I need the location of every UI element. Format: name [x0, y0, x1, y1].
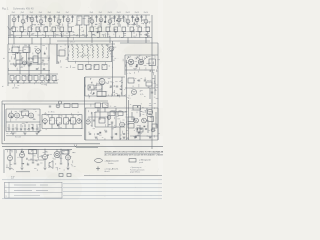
- resistor R13: [122, 27, 126, 31]
- capacitor C1: [17, 17, 19, 18]
- resistor R31: [16, 76, 20, 81]
- tube V11: [117, 18, 121, 22]
- wire R12 lead: [115, 31, 117, 37]
- wire band2 right v2: [157, 43, 159, 140]
- svg-text:Schematic KW 40: Schematic KW 40: [13, 7, 34, 11]
- transistor Q1: [134, 118, 139, 123]
- tube V9: [99, 18, 103, 22]
- table row line 1: [5, 187, 63, 189]
- capacitor C61: [36, 69, 38, 70]
- table divider v: [8, 182, 10, 198]
- wire b4r v11: [119, 127, 121, 140]
- wire band2 right v1: [124, 55, 126, 75]
- wire V2 anode: [22, 15, 24, 19]
- wire V14 anode: [145, 15, 147, 19]
- transformer T1: [77, 16, 82, 25]
- wire band3 mid bottom: [85, 95, 125, 97]
- capacitor C2: [26, 17, 28, 18]
- resistor R49: [99, 118, 105, 123]
- capacitor C54: [37, 164, 39, 165]
- label band4 texture L: [16, 119, 17, 121]
- wire R43 leads: [58, 115, 60, 118]
- wire wrap2 drop: [4, 104, 6, 141]
- tube V14: [144, 19, 148, 23]
- wire band2 V16 lead: [111, 51, 113, 62]
- svg-text:4 x ECC: 4 x ECC: [48, 112, 55, 114]
- wire band3 bottom: [8, 82, 58, 84]
- wire bl cont: [76, 147, 98, 149]
- ground band2 a: [14, 65, 17, 67]
- wire band4 right rail: [85, 107, 158, 109]
- wire V7 cathode: [67, 22, 69, 27]
- wire L5 top: [91, 44, 93, 46]
- svg-text:8x 0,05: 8x 0,05: [15, 137, 21, 139]
- wire V11 cathode: [118, 22, 120, 27]
- node wrap joint: [59, 101, 62, 104]
- ground b4r c: [123, 137, 126, 139]
- resistor R67: [118, 112, 123, 116]
- wire band4 right v3: [125, 60, 127, 140]
- wire band3 fr v: [154, 75, 156, 95]
- capacitor C60: [42, 60, 44, 61]
- diode D2: [136, 56, 139, 59]
- wire bl tube drops: [9, 161, 11, 168]
- table entry 1: [14, 184, 48, 186]
- wire V10 cathode: [109, 23, 111, 27]
- wire long rail A: [2, 143, 100, 145]
- ground bl d: [67, 168, 70, 170]
- wire band4 left rail: [6, 108, 40, 110]
- capacitor C62: [43, 69, 45, 70]
- ground band4 a: [12, 133, 15, 135]
- wire V13 anode: [136, 15, 138, 18]
- resistor R50: [148, 117, 154, 122]
- capacitor C13: [140, 17, 142, 18]
- capacitor C32: [116, 86, 118, 87]
- capacitor C63: [151, 92, 153, 93]
- wire V10 anode: [109, 15, 111, 19]
- wire ruled line 6: [2, 198, 162, 200]
- wire V11 anode: [118, 15, 120, 18]
- resistor R4: [36, 27, 40, 31]
- resistor R54: [128, 124, 134, 129]
- wire R44 leads: [65, 115, 67, 118]
- resistor R5: [44, 27, 48, 31]
- tube V35: [56, 104, 60, 108]
- wire band2 right rail: [125, 54, 158, 56]
- wire band4 mid bottom: [42, 128, 82, 130]
- wire band4 r v5: [139, 125, 141, 140]
- capacitor C70: [89, 134, 91, 135]
- wire band2 col d: [19, 53, 21, 75]
- capacitor C34: [144, 80, 146, 81]
- wire band2 rail s2: [30, 57, 50, 59]
- svg-text:4,7k: 4,7k: [140, 94, 143, 96]
- ground b4r a: [95, 137, 98, 139]
- wire L3 top: [81, 44, 83, 46]
- wire V7 anode: [67, 15, 69, 18]
- wire R5 lead: [45, 31, 47, 37]
- resistor R48: [133, 106, 141, 111]
- capacitor C23: [28, 58, 30, 59]
- capacitor C4: [44, 17, 46, 18]
- wire L7 top: [101, 44, 103, 46]
- ground b4r b: [111, 137, 114, 139]
- wire V8 cathode: [91, 23, 93, 27]
- wire V8 anode: [91, 15, 93, 19]
- svg-text:punkt: punkt: [139, 161, 144, 164]
- svg-text:Sender: Sender: [108, 162, 114, 165]
- wire R2 lead: [21, 31, 23, 37]
- wire band3 mid v2: [101, 85, 103, 97]
- inductor L3: [82, 46, 83, 58]
- tube V4: [39, 19, 43, 23]
- resistor R45: [71, 118, 76, 124]
- resistor R42: [50, 118, 55, 124]
- wire L8 top: [106, 44, 108, 46]
- tube V34: [23, 61, 27, 65]
- wire band3 rail: [8, 73, 58, 75]
- wire band2 rail mid: [8, 70, 50, 72]
- wire schematic bottom edge: [84, 175, 162, 177]
- wire ruled line 1: [2, 179, 162, 181]
- wire band2 mid drop: [56, 44, 58, 64]
- svg-text:1k: 1k: [140, 133, 142, 135]
- capacitor C64: [49, 106, 51, 107]
- resistor R12: [114, 27, 118, 31]
- wire bl v5: [67, 149, 69, 155]
- wire band2 left drop: [7, 44, 9, 64]
- wire long rail B: [2, 145, 163, 147]
- wire band4 r v4: [146, 108, 148, 116]
- wire V12 cathode: [127, 23, 129, 27]
- resistor R6: [52, 27, 56, 31]
- wire bl v2: [21, 149, 23, 152]
- tube V19: [99, 79, 105, 85]
- wire top rail: [10, 14, 150, 16]
- tube V22: [15, 113, 20, 118]
- wire bl v1: [9, 149, 11, 155]
- inductor L2: [77, 46, 78, 58]
- capacitor C6: [62, 17, 64, 18]
- wire band4 left v: [5, 109, 7, 132]
- svg-text:+ 2x: + 2x: [127, 73, 131, 75]
- capacitor C50: [111, 122, 113, 123]
- wire R11 lead: [107, 31, 109, 37]
- wire screen rail left: [12, 31, 74, 33]
- wire legend pointer: [151, 146, 153, 149]
- tube V7: [66, 18, 70, 22]
- wire band3 mid rail: [85, 76, 125, 78]
- wire V2 cathode: [22, 23, 24, 27]
- label band4 texture R: [144, 111, 146, 113]
- wire R9 lead: [91, 31, 93, 37]
- wire R30 lead: [11, 81, 13, 84]
- resistor R53: [128, 117, 134, 122]
- wire band4 r v6: [94, 112, 96, 127]
- wire b4r v12: [131, 112, 133, 120]
- resistor R36: [46, 76, 50, 81]
- node bl dots: [21, 149, 22, 150]
- label legend sym3: [96, 167, 100, 171]
- wire band2 rail: [8, 43, 115, 45]
- wire band2 v2: [26, 53, 28, 65]
- svg-text:Rö11: Rö11: [117, 12, 121, 14]
- tube V16: [109, 46, 114, 51]
- label band2 texture M: [112, 67, 114, 69]
- capacitor C10: [113, 17, 115, 18]
- wire V1 cathode: [13, 22, 15, 27]
- wire V4 cathode: [40, 23, 42, 27]
- svg-text:Rö14: Rö14: [144, 12, 148, 14]
- wire R14 lead: [131, 31, 133, 37]
- tube V12: [126, 19, 130, 23]
- wire band3 mid v3: [121, 77, 123, 96]
- wire band4 right bottom: [85, 139, 158, 141]
- wire band2 join: [7, 64, 9, 74]
- svg-text:Rö8: Rö8: [90, 12, 93, 14]
- inductor L6: [97, 46, 98, 58]
- label bl texture: [40, 162, 42, 164]
- resistor R55: [152, 124, 157, 128]
- svg-text:Rö12: Rö12: [126, 12, 130, 14]
- tube V20: [132, 90, 137, 95]
- svg-text:Anschl.: Anschl.: [105, 170, 111, 173]
- wire b4r v10: [115, 108, 117, 127]
- wire R33 lead: [29, 81, 31, 84]
- wire band3 mid v1: [84, 77, 86, 96]
- inductor L8: [107, 46, 108, 58]
- resistor R35: [40, 76, 44, 81]
- wire bl drops2: [14, 149, 16, 162]
- capacitor C73: [115, 134, 117, 135]
- wire band2 v3: [37, 54, 39, 65]
- table entry 3: [14, 195, 40, 197]
- tube V37: [151, 128, 155, 132]
- wire band2 right v: [112, 41, 114, 96]
- wire band3 left v: [7, 74, 9, 86]
- ground band4 b: [24, 133, 27, 135]
- tube V29: [8, 156, 13, 161]
- wire R8 lead: [69, 31, 71, 37]
- wire wrap1 drop: [1, 101, 3, 144]
- resistor R11: [106, 27, 110, 31]
- svg-text:Rö4: Rö4: [39, 12, 42, 14]
- resistor R40: [128, 78, 134, 83]
- tube V26: [147, 109, 152, 114]
- wire R15 lead: [139, 31, 141, 37]
- inductor L1: [72, 46, 73, 58]
- wire band2 coil bottom: [68, 61, 112, 63]
- wire R4 lead: [37, 31, 39, 37]
- wire interstage drops: [18, 15, 20, 22]
- node rail dots: [23, 15, 24, 16]
- tube V25: [77, 119, 82, 124]
- svg-text:50k: 50k: [24, 45, 27, 47]
- wire R34 lead: [35, 81, 37, 84]
- capacitor C49: [93, 120, 95, 121]
- tube V8: [90, 19, 94, 23]
- svg-text:Rö1: Rö1: [12, 12, 15, 14]
- resistor R41: [22, 111, 29, 116]
- wire band2 rail right: [120, 42, 158, 44]
- svg-text:Rö2: Rö2: [21, 12, 24, 14]
- tube V24: [43, 119, 48, 124]
- capacitor C9: [104, 17, 106, 18]
- svg-text:Rö6: Rö6: [57, 12, 60, 14]
- tube V28: [120, 122, 125, 127]
- ground band4 e: [149, 137, 152, 139]
- node top junctions: [19, 37, 20, 38]
- resistor R47: [103, 103, 109, 108]
- table revision box: [5, 182, 63, 198]
- wire R45 leads: [72, 115, 74, 118]
- wire band4 left rail2: [6, 121, 40, 123]
- wire band4 right v2: [157, 108, 159, 140]
- tube V2: [21, 19, 25, 23]
- svg-text:ALL VOLTAGES MEASURED WITH 20: ALL VOLTAGES MEASURED WITH 20 kΩ/V METER…: [105, 154, 164, 157]
- resistor R10: [98, 27, 102, 31]
- wire b4r v8: [99, 108, 101, 120]
- resistor R66: [110, 112, 115, 116]
- wire band2 col c: [40, 38, 42, 75]
- resistor R44: [64, 118, 69, 124]
- label band3 texture M: [94, 88, 96, 90]
- capacitor C72: [105, 131, 107, 132]
- resistor R60: [16, 60, 22, 64]
- wire band2 top rail: [57, 40, 150, 42]
- label top band texture: [31, 28, 33, 30]
- tube V1: [12, 18, 16, 22]
- wire b4r v7: [91, 112, 93, 127]
- wire b4r v13: [139, 108, 141, 117]
- label band4 texture M: [78, 119, 80, 121]
- wire ruled line 4: [63, 191, 162, 193]
- label band2 texture R: [153, 61, 155, 64]
- wire bl drop left: [3, 149, 5, 173]
- resistor R22: [23, 47, 30, 53]
- wire R10 lead: [99, 31, 101, 37]
- capacitor C33: [138, 80, 140, 81]
- ground bl b: [21, 168, 24, 170]
- resistor R64: [64, 104, 70, 108]
- wire ruled line 5: [63, 194, 162, 196]
- tube V10: [108, 19, 112, 23]
- resistor R23: [59, 50, 65, 56]
- ground band2 b: [28, 65, 31, 67]
- wire V12 anode: [127, 15, 129, 19]
- wire band4 boundary: [6, 135, 82, 137]
- wire V9 anode: [100, 15, 102, 18]
- resistor R3: [28, 27, 32, 31]
- wire wrap2: [2, 103, 96, 105]
- wire screen rail mid: [8, 34, 88, 36]
- wire b4r v9: [107, 112, 109, 127]
- inductor L7: [102, 46, 103, 58]
- capacitor bank C41-C48: [8, 124, 10, 131]
- label legend sym1: [95, 159, 103, 163]
- resistor R27: [102, 65, 107, 70]
- svg-text:Rö3: Rö3: [30, 12, 33, 14]
- resistor R16: [146, 27, 150, 31]
- wire bl v4: [56, 149, 58, 151]
- resistor R8: [68, 27, 72, 31]
- wire R35 lead: [41, 81, 43, 84]
- wire top drops: [13, 38, 15, 45]
- wire band4 r mid2: [95, 126, 125, 128]
- label junction mark: [74, 145, 77, 148]
- label legend sym2: [129, 159, 136, 162]
- capacitor C5: [53, 17, 55, 18]
- wire band2 col b: [48, 44, 50, 83]
- wire band2 col a: [28, 44, 30, 83]
- wire R7 lead: [61, 31, 63, 37]
- wire screen rail right: [88, 31, 150, 33]
- capacitor C74: [123, 134, 125, 135]
- resistor R39: [96, 85, 102, 90]
- capacitor C55: [60, 163, 62, 164]
- wire b4r v15: [155, 112, 157, 127]
- capacitor C8: [95, 17, 97, 18]
- wire R13 lead: [123, 31, 125, 37]
- ground bl c: [44, 168, 47, 170]
- resistor R14: [130, 27, 134, 31]
- wire band3 fr v2: [149, 88, 151, 99]
- resistor R63: [146, 82, 152, 86]
- ground band4 c: [36, 133, 39, 135]
- label top band values: [144, 34, 146, 36]
- tube V18: [138, 59, 144, 65]
- capacitor C22: [21, 58, 23, 59]
- svg-text:Rö13: Rö13: [135, 12, 139, 14]
- wire V6 anode: [58, 15, 60, 19]
- capacitor C11: [122, 17, 124, 18]
- wire right bus: [151, 15, 153, 146]
- wire R32 lead: [23, 81, 25, 84]
- capacitor C21: [14, 58, 16, 59]
- tube V30: [20, 153, 25, 158]
- svg-text:Rö10: Rö10: [108, 12, 112, 14]
- wire bl rail: [5, 148, 72, 150]
- label component bodies: [97, 31, 99, 33]
- wire band4 mid v1: [41, 115, 43, 129]
- wire b4r h1: [88, 116, 108, 118]
- table entry 2: [14, 189, 48, 191]
- resistor R38: [88, 85, 94, 90]
- wire L2 top: [76, 44, 78, 46]
- wire L1 top: [71, 44, 73, 46]
- wire ruled line 2: [63, 183, 162, 185]
- resistor R29: [149, 59, 156, 66]
- resistor R25: [86, 65, 91, 70]
- tube V27: [86, 120, 90, 124]
- wire V4 anode: [40, 15, 42, 19]
- tube V31: [43, 155, 48, 160]
- resistor R46: [95, 103, 101, 108]
- wire band4 left bottom: [6, 131, 40, 133]
- wire band4 r v0: [97, 108, 99, 113]
- capacitor C51: [14, 163, 16, 164]
- capacitor C31: [110, 86, 112, 87]
- wire bl rail mid: [28, 159, 44, 161]
- wire ruled line 3: [63, 187, 162, 189]
- wire b4r v14: [147, 122, 149, 133]
- tube V5: [48, 18, 52, 22]
- capacitor C71: [97, 134, 99, 135]
- wire R36 lead: [47, 81, 49, 84]
- wire R6 lead: [53, 31, 55, 37]
- wire V5 cathode: [49, 22, 51, 27]
